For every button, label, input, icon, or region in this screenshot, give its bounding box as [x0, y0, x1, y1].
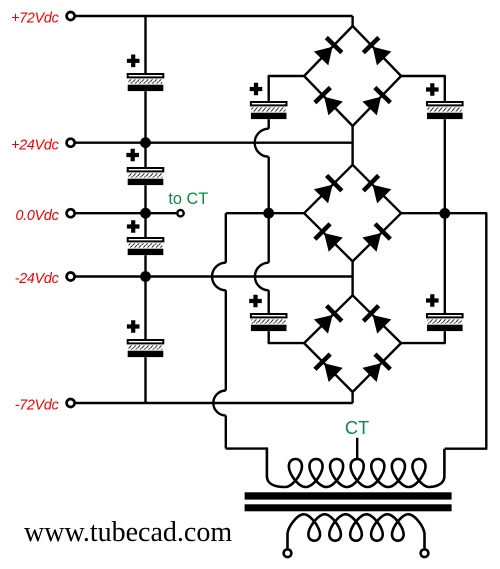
wire bridge3 LR edge [353, 343, 402, 392]
wire bridge1 UR edge [353, 26, 402, 76]
wire +24Vdc rail [75, 141, 353, 143]
wire C7 bottom [444, 119, 446, 213]
node +24/column [140, 137, 151, 148]
wire bridge3 bottom stub [351, 392, 353, 403]
terminal 0.0Vdc [67, 209, 75, 217]
diode D9 [314, 304, 344, 334]
terminal -72Vdc [67, 399, 75, 407]
wire C6 top with hop [255, 213, 269, 313]
terminal -24Vdc [67, 273, 75, 281]
terminal secondary left [284, 549, 292, 557]
node -24/column [140, 271, 151, 282]
wire bridge3 UL edge [304, 295, 353, 343]
diode D8 [362, 222, 392, 252]
wire C3 top [144, 213, 146, 237]
wire C2 top [144, 143, 146, 167]
diode D1 [314, 36, 344, 66]
wire C1 bottom [144, 91, 146, 143]
terminal to CT [177, 210, 183, 216]
capacitor C4 [127, 320, 163, 357]
svg-text:0.0Vdc: 0.0Vdc [15, 208, 58, 224]
svg-text:+24Vdc: +24Vdc [11, 137, 58, 153]
label 0.0Vdc [15, 208, 58, 224]
wire C4 top [144, 277, 146, 340]
wire C2 bottom [144, 185, 146, 213]
wire +72Vdc rail [75, 15, 353, 17]
wire -24Vdc rail [75, 275, 353, 277]
capacitor C3 [127, 220, 163, 255]
transformer core bar 2 [245, 504, 452, 511]
wire 0.0Vdc rail [75, 212, 177, 214]
label -72Vdc [15, 398, 59, 414]
transformer primary winding [267, 449, 445, 487]
transformer secondary winding [288, 514, 425, 548]
diode D6 [362, 174, 392, 204]
node 0V/column [140, 208, 151, 219]
wire bridge3 LL edge [304, 343, 353, 392]
diode D10 [362, 304, 392, 334]
wire CT horizontal [226, 212, 304, 214]
label +72Vdc [11, 11, 58, 27]
wire C4 bottom [144, 357, 146, 403]
diode D5 [314, 174, 344, 204]
diode D7 [313, 222, 343, 252]
diode D3 [313, 86, 343, 116]
wire bridge1 LR edge [353, 76, 402, 126]
terminal +24Vdc [67, 139, 75, 147]
capacitor C1 [127, 55, 163, 92]
wire bridge2 right [401, 212, 445, 214]
capacitor C8 [426, 294, 463, 331]
wire bridge2 UL edge [304, 165, 353, 213]
wire C3 bottom [144, 255, 146, 276]
wire far right run [445, 213, 487, 449]
wire bridge1-bridge2 [351, 126, 353, 165]
diode D11 [313, 353, 343, 383]
svg-text:www.tubecad.com: www.tubecad.com [24, 517, 232, 548]
wire bridge2 UR edge [353, 165, 402, 213]
terminal +72Vdc [67, 12, 75, 20]
wire bridge2 LL edge [304, 213, 353, 261]
wire CT vertical upper [212, 213, 226, 390]
wire CT vertical lower [213, 391, 225, 449]
wire bridge1 left to C5 [269, 76, 304, 101]
capacitor C6 [249, 295, 286, 331]
wire -72Vdc rail [75, 402, 353, 404]
wire bridge1 UL edge [304, 26, 353, 76]
capacitor C7 [426, 83, 463, 119]
svg-text:-24Vdc: -24Vdc [15, 271, 59, 287]
svg-text:to CT: to CT [168, 190, 208, 208]
wire bridge1 right to C7 [401, 76, 445, 101]
wire bridge2 LR edge [353, 213, 402, 261]
transformer core bar 1 [245, 492, 452, 499]
wire +72 to bridge top [351, 16, 353, 26]
diode D2 [362, 36, 392, 66]
wire CT label stub [356, 438, 358, 460]
wire bridge2-bridge3 [351, 261, 353, 295]
wire bridge3 UR edge [353, 295, 402, 343]
svg-text:-72Vdc: -72Vdc [15, 398, 59, 414]
label www.tubecad.com [24, 517, 232, 548]
wire C6 bottom to bridge3 [269, 331, 304, 343]
label +24Vdc [11, 137, 58, 153]
capacitor C2 [126, 149, 163, 185]
diode D4 [362, 86, 392, 116]
wire bridge1 LL edge [304, 76, 353, 126]
terminal secondary right [421, 549, 429, 557]
wire right column to C8 [444, 213, 446, 313]
svg-text:CT: CT [345, 417, 369, 438]
label -24Vdc [15, 271, 59, 287]
wire column top [144, 16, 146, 73]
wire CT to primary [226, 447, 268, 449]
node right column [439, 208, 450, 219]
diode D12 [362, 353, 392, 383]
svg-text:+72Vdc: +72Vdc [11, 11, 58, 27]
wire C5 bottom with hop [255, 119, 269, 213]
node CT/left cap line [263, 208, 274, 219]
capacitor C5 [250, 83, 287, 119]
wire C8 bottom to bridge3 [401, 331, 445, 343]
label CT [345, 417, 369, 438]
label to CT [168, 190, 208, 208]
